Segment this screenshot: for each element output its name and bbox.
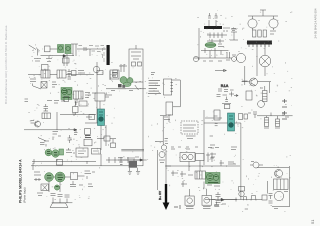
wire osc bus (194, 57, 232, 59)
parts below coil (201, 48, 228, 58)
small box below T2 (89, 115, 95, 120)
wire row4b (97, 139, 116, 144)
small box REA (224, 105, 230, 109)
right marks above bus (166, 160, 240, 166)
wire audio (49, 176, 85, 192)
wire right mid (204, 122, 241, 124)
marks right of X (52, 82, 57, 87)
audio driver highlighted (45, 172, 65, 190)
vertical parts right (206, 153, 214, 163)
box mid left (57, 160, 63, 166)
right border line (288, 166, 290, 207)
coil L1 highlighted (58, 45, 64, 53)
wire osc (99, 101, 101, 109)
transistor Q2 (35, 121, 41, 127)
transistor Q8 (269, 19, 278, 28)
annotation speckle labels (28, 10, 292, 211)
IC bar U1 (247, 41, 272, 48)
wire bottom bus (205, 199, 262, 201)
component column Q3 (84, 129, 92, 146)
box row3b (64, 97, 69, 102)
parts right x57 (53, 132, 62, 141)
wire diagonal left (33, 86, 41, 89)
bottom right circle (274, 191, 283, 200)
IF can label dark (204, 26, 222, 29)
B+ arrow bold (163, 150, 170, 210)
resistor R16 (246, 91, 252, 100)
parts left of driver (34, 172, 41, 181)
pin list text rows (148, 80, 161, 93)
detector stage highlighted (45, 149, 63, 157)
wire center horiz (155, 140, 163, 142)
wire bus 130 (24, 129, 76, 131)
osc section top: vertical wires (199, 20, 216, 60)
output transformer T6 (202, 196, 212, 209)
transistor Q14 (159, 152, 165, 158)
parts row Q audio (41, 184, 49, 191)
capacitor C3 (68, 69, 72, 79)
marks below Q14 (159, 160, 165, 163)
bus with ticks (257, 112, 293, 119)
trimmer row1 (207, 33, 227, 39)
band switch S1 teal (98, 109, 105, 126)
capacitor C11 (227, 52, 236, 58)
cap vertical REA (222, 97, 231, 104)
wire r15 (260, 86, 265, 91)
transistor Q15 (275, 170, 283, 178)
connector pins (170, 83, 173, 92)
tiny dots cluster (151, 73, 155, 75)
transistor Qo1 (193, 56, 198, 61)
wire mid vertical (203, 110, 205, 165)
svg-text:B4 HF (Fabricacao UHF) com RFc: B4 HF (Fabricacao UHF) com RFcr-04 51FA … (4, 25, 8, 104)
transistor Q11 (250, 78, 258, 86)
small box row1 (72, 71, 77, 76)
resistor R15 (263, 91, 268, 102)
capacitor C2 (84, 47, 86, 51)
left ticks row (118, 158, 123, 165)
svg-text:(Parte baja): (Parte baja) (23, 187, 27, 203)
IF transformer T2 (57, 70, 66, 78)
wire vert x267 (266, 181, 268, 194)
wire below switch (101, 125, 106, 150)
trapezoid contacts (243, 196, 256, 201)
marks right (270, 31, 276, 34)
svg-text:51: 51 (310, 219, 315, 224)
interstage transformer T4 (180, 153, 195, 162)
marks left caps (37, 184, 93, 196)
diode box D1 (239, 187, 245, 197)
parts around output (165, 166, 193, 177)
hanging resistor RB1 (265, 118, 269, 127)
wire input diagonal (29, 45, 40, 56)
arrow small right (234, 95, 238, 97)
resistor R9 (104, 136, 110, 141)
wire arrow top (215, 69, 227, 71)
wire center drop (160, 115, 171, 145)
capacitor pair C5 (44, 104, 49, 111)
svg-text:24-05 B4X14 APS 604: 24-05 B4X14 APS 604 (314, 8, 318, 38)
marks right of label (223, 28, 236, 32)
trimmer inside (131, 45, 141, 59)
box right row1 (110, 70, 119, 79)
marks right driver (85, 171, 96, 179)
wire bus AM (41, 55, 75, 57)
resistor bank Rb1 (253, 30, 256, 37)
output stage highlighted (206, 173, 221, 184)
left column parts (230, 29, 238, 40)
volume pot P1 (73, 107, 79, 113)
bottom mid parts (181, 181, 220, 188)
parts right of detector (66, 148, 75, 153)
node A (50, 48, 58, 50)
arrow head (63, 55, 66, 57)
marks right of hatch (85, 93, 96, 98)
svg-text:R.I.A: R.I.A (221, 84, 229, 88)
wire to switch (85, 117, 98, 123)
IF transformer T1 (41, 70, 50, 78)
junction diode (221, 198, 224, 201)
parts mid bottom (262, 194, 273, 204)
wire right drop (33, 154, 101, 170)
diode box X (41, 82, 47, 89)
row3 marks (47, 101, 65, 104)
output transformer T5 (185, 196, 194, 209)
transistor Q9 (236, 53, 245, 62)
wire can down (142, 82, 144, 166)
transistor Q7 (248, 19, 257, 28)
small box right (92, 149, 101, 155)
tuner can box (129, 49, 143, 82)
dense block under row (127, 157, 139, 168)
wire Q10 (257, 44, 265, 76)
driver box hatch (195, 171, 206, 179)
wire stub (64, 54, 67, 66)
wire vert right REA (242, 66, 248, 85)
wire row1 (28, 74, 94, 76)
wire drop (89, 49, 91, 56)
ticks row1 (78, 71, 85, 74)
speaker LS1 (50, 203, 68, 208)
top marks row (171, 147, 237, 150)
schematic ink layer (24, 10, 293, 210)
bottom right parts (245, 192, 290, 210)
wire row5 (52, 202, 73, 204)
label block black (107, 45, 110, 65)
wire top right of module (205, 116, 222, 126)
wire row 160 (118, 159, 147, 161)
faint text left of block (103, 47, 105, 62)
transistor Qo2 (232, 57, 237, 62)
resistor R11 (71, 173, 78, 180)
ferrite rod cluster (105, 95, 112, 97)
svg-text:B+ 6V: B+ 6V (158, 191, 162, 200)
converter stage highlighted (120, 77, 133, 87)
wire below converter (106, 85, 146, 91)
resistor bank Rb2 (258, 30, 261, 37)
dashed module box (181, 121, 198, 139)
caps row3 (75, 100, 79, 105)
switch S2 teal (228, 113, 235, 131)
wire top bus (77, 48, 106, 50)
transistor Q1 (93, 66, 99, 72)
resistor R14 (214, 110, 220, 120)
caps row (51, 194, 70, 203)
vertical drop x76 (74, 130, 78, 135)
parts under bus (34, 56, 52, 62)
oscillator coil T2 (95, 93, 105, 101)
bottom marks bus (264, 117, 289, 128)
transistor Q4 (161, 145, 166, 150)
coil highlighted (205, 42, 216, 47)
hatched box right (274, 179, 289, 190)
coil L2 highlighted (65, 45, 71, 54)
flat box L3 (42, 113, 51, 119)
tick far left (25, 99, 29, 102)
wire antenna pair (71, 44, 78, 56)
bottom row marks osc (203, 60, 230, 61)
wires bottom row (190, 189, 237, 206)
marks left Q2 (31, 121, 35, 124)
parts left of can (119, 64, 127, 72)
top right link wire (257, 167, 289, 169)
wire long bus (31, 165, 143, 167)
resistor bank Rb3 (263, 30, 266, 37)
wire vertical main (96, 62, 98, 123)
transistor Q12 (258, 101, 265, 108)
wire row4 (60, 113, 96, 116)
vertical x57 (56, 112, 58, 130)
plus minus list (282, 99, 287, 119)
wire pot (74, 101, 76, 115)
capacitor C9 (121, 149, 144, 151)
capacitor C8 (70, 181, 83, 187)
wire center vertical (158, 150, 200, 190)
dark cluster below converter (118, 84, 127, 89)
capacitor C4 (97, 71, 103, 75)
mixer stage highlighted (61, 88, 72, 100)
arrow on bus (74, 129, 77, 131)
capacitor C6 (68, 135, 72, 143)
trimmer row2 (207, 39, 224, 43)
wire legs (253, 16, 274, 30)
resistor R1 (45, 46, 51, 52)
capacitor C10 (208, 13, 218, 18)
output transistor Q10 with X (259, 55, 271, 67)
trimmer pads (132, 62, 136, 66)
capacitor C12 (248, 112, 257, 118)
marks right of module (210, 136, 216, 157)
connector J1 (164, 79, 172, 95)
box row3 (79, 101, 87, 106)
hatched input coil (113, 70, 117, 78)
capacitor pair lower (214, 202, 219, 207)
box below R1 (42, 65, 49, 71)
caps bottom left (40, 141, 49, 147)
trimmer pads2 (138, 62, 142, 66)
box B2 (196, 154, 205, 161)
wire connector loop (172, 80, 181, 107)
diag wire (38, 138, 46, 142)
hi marks (174, 205, 180, 209)
connector J2 (166, 102, 173, 115)
wire down long (240, 123, 242, 200)
cluster below can (110, 71, 118, 80)
transistor Q13 (250, 162, 263, 169)
hatched box right of mixer (74, 91, 84, 99)
wire connector (164, 115, 170, 122)
capacitor bank bottom (216, 192, 221, 203)
arrow row 160 (140, 159, 143, 161)
caps rows under REA (217, 89, 235, 97)
wire bus upper (32, 159, 96, 164)
label ticks bus (79, 46, 105, 52)
parts left edge (30, 79, 36, 86)
capacitor C1 (63, 58, 70, 63)
hanging resistor RB2 (276, 119, 280, 127)
small boxes at junction (239, 114, 248, 120)
component row small (106, 157, 140, 163)
capacitor C7 (111, 143, 116, 148)
wire out top bus (248, 10, 278, 16)
AGC box (76, 148, 88, 157)
marks near drop (165, 139, 169, 144)
ground drops (128, 168, 140, 175)
marks right of coil (218, 44, 224, 47)
wire Q11 (242, 82, 272, 93)
